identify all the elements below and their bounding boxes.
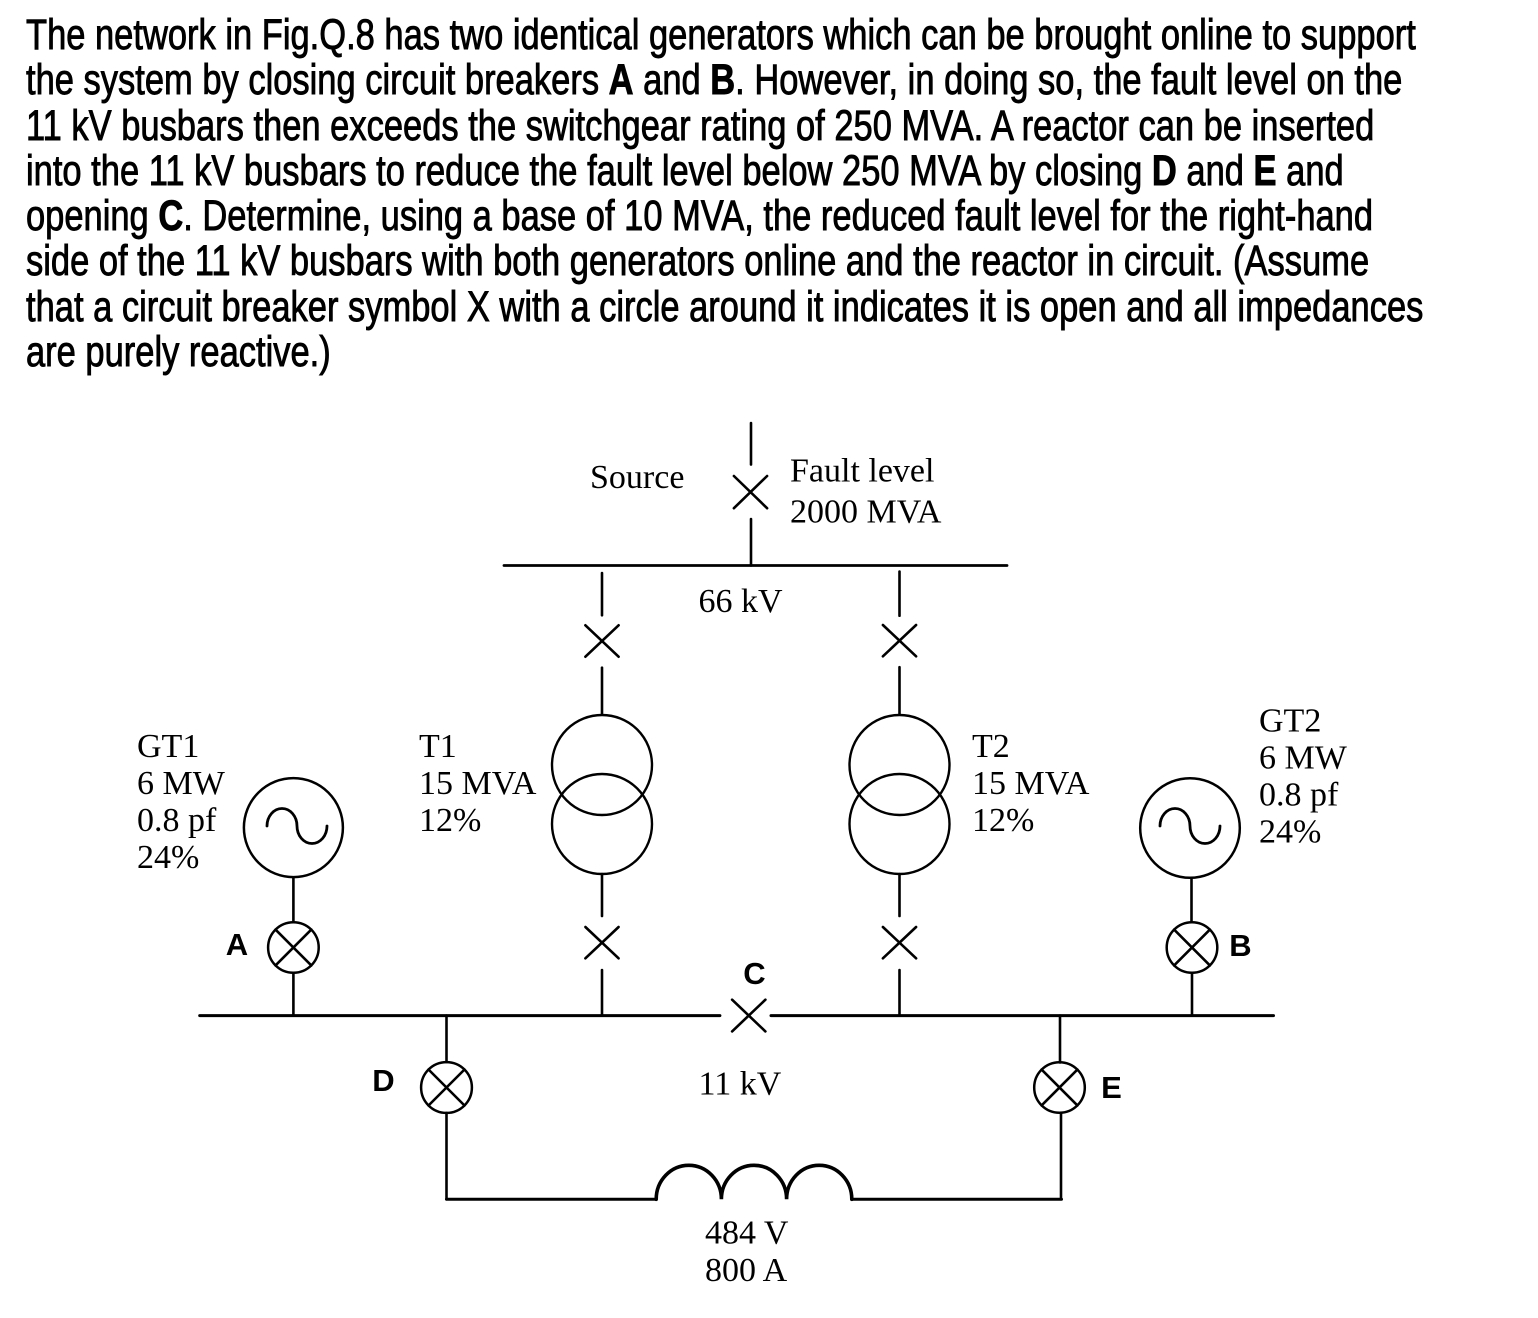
- wire 11kV bus to breaker D: [445, 1016, 448, 1062]
- wire breaker to transformer T1: [601, 668, 604, 715]
- svg-text:66 kV: 66 kV: [699, 583, 784, 620]
- svg-text:2000 MVA: 2000 MVA: [790, 494, 942, 531]
- circuit breaker X T1 HV: [585, 625, 618, 656]
- svg-text:6 MW: 6 MW: [1259, 740, 1348, 777]
- svg-text:6 MW: 6 MW: [137, 765, 226, 802]
- svg-text:B: B: [1229, 928, 1251, 963]
- svg-text:24%: 24%: [137, 839, 199, 876]
- svg-text:Source: Source: [590, 459, 684, 496]
- circuit breaker X T2 LV: [883, 927, 916, 958]
- svg-text:T2: T2: [972, 728, 1010, 765]
- svg-text:C: C: [743, 956, 765, 991]
- svg-text:A: A: [226, 927, 248, 962]
- svg-text:Fault level: Fault level: [790, 453, 934, 490]
- circuit breaker X T2 HV: [883, 625, 916, 656]
- circuit breaker X T1 LV: [585, 927, 618, 958]
- svg-text:11 kV: 11 kV: [699, 1066, 782, 1103]
- wire reactor branch right horizontal: [852, 1198, 1062, 1201]
- wire breaker A to 11kV bus: [292, 973, 295, 1015]
- svg-text:0.8 pf: 0.8 pf: [1259, 777, 1339, 814]
- transformer T2: [850, 715, 950, 874]
- circuit breaker E (open, circled X): [1034, 1062, 1085, 1113]
- wire up to breaker E: [1060, 1113, 1063, 1199]
- svg-text:12%: 12%: [419, 802, 481, 839]
- wire reactor branch left horizontal: [447, 1198, 657, 1201]
- circuit breaker B (open, circled X): [1167, 922, 1218, 973]
- transformer T1: [552, 715, 652, 874]
- wire 66kV bus to T2 HV breaker: [898, 572, 901, 616]
- wire transformer T1 to LV breaker: [601, 874, 604, 916]
- busbar 66 kV: [504, 564, 1007, 567]
- svg-text:GT1: GT1: [137, 728, 199, 765]
- svg-text:E: E: [1101, 1070, 1122, 1105]
- generator GT1: [244, 778, 343, 877]
- wire T1 LV breaker to 11kV bus: [601, 970, 604, 1016]
- wire T2 LV breaker to 11kV bus: [898, 970, 901, 1016]
- wire breaker B to 11kV bus: [1191, 973, 1194, 1015]
- generator GT2: [1140, 778, 1240, 878]
- wire breaker E to 11kV bus: [1059, 1016, 1062, 1063]
- svg-text:12%: 12%: [972, 802, 1034, 839]
- reactor (484 V 800 A): [656, 1165, 852, 1199]
- wire GT1 to breaker A: [292, 878, 295, 923]
- svg-text:GT2: GT2: [1259, 703, 1321, 740]
- svg-text:484 V: 484 V: [705, 1214, 789, 1251]
- svg-text:15 MVA: 15 MVA: [972, 765, 1090, 802]
- svg-text:0.8 pf: 0.8 pf: [137, 802, 217, 839]
- wire GT2 to breaker B: [1190, 878, 1193, 922]
- wire source to 66kV bus: [750, 519, 753, 566]
- svg-text:15 MVA: 15 MVA: [419, 765, 537, 802]
- svg-text:800 A: 800 A: [705, 1252, 788, 1289]
- circuit breaker D (open, circled X): [421, 1062, 472, 1113]
- busbar 11 kV right: [771, 1014, 1274, 1017]
- busbar 11 kV left: [200, 1014, 720, 1017]
- wire source incoming: [750, 423, 753, 465]
- wire breaker to transformer T2: [898, 667, 901, 714]
- wire 66kV bus to T1 HV breaker: [601, 573, 604, 615]
- wire transformer T2 to LV breaker: [898, 874, 901, 916]
- circuit breaker C (bus-tie X): [732, 1000, 765, 1032]
- svg-text:D: D: [372, 1063, 394, 1098]
- svg-text:24%: 24%: [1259, 814, 1321, 851]
- circuit breaker X source: [734, 476, 767, 508]
- wire breaker D down to reactor branch: [445, 1113, 448, 1199]
- circuit breaker A (open, circled X): [268, 922, 319, 973]
- svg-text:T1: T1: [419, 728, 457, 765]
